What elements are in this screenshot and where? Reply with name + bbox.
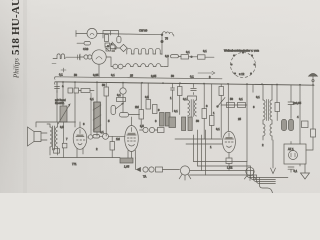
capacitor C5	[120, 88, 126, 94]
wire (bundle to corners)	[190, 162, 257, 176]
resistor R23	[219, 87, 224, 96]
ground arrow GND2	[271, 140, 276, 174]
scale lamp LA2	[84, 55, 88, 59]
svg-text:6,3: 6,3	[165, 54, 169, 58]
wire	[211, 84, 213, 139]
svg-text:0,1: 0,1	[239, 97, 243, 101]
coil L1	[163, 32, 174, 36]
AF choke R19 (hatched)	[182, 117, 186, 131]
potentiometer P1 arrow	[116, 103, 124, 109]
title: Philips 518 HU-AU (vertical)	[10, 0, 22, 79]
capacitor C15 under bus	[55, 82, 60, 93]
resistor R1	[105, 35, 109, 42]
junction dots on bus	[62, 81, 314, 86]
AF choke R20 (hatched)	[188, 117, 192, 131]
svg-text:25: 25	[130, 74, 133, 78]
valve base B2 (crow foot)	[246, 167, 254, 175]
resistor R6	[81, 89, 90, 93]
wire	[75, 82, 94, 127]
rectifier G1 (diamond)	[120, 44, 127, 51]
winding L7	[263, 124, 265, 136]
svg-text:0,1: 0,1	[203, 49, 207, 53]
capacitor C8	[171, 83, 175, 112]
tube socket top view U1	[231, 53, 256, 78]
output tube V1	[73, 128, 87, 150]
scale lamps LA3	[113, 64, 118, 69]
pilot lamp LA1	[87, 28, 97, 38]
svg-text:0,1: 0,1	[190, 75, 194, 79]
wire	[41, 133, 47, 140]
wire	[140, 129, 158, 131]
cathode resistor R26	[226, 158, 232, 164]
junction	[191, 56, 193, 58]
wire	[63, 122, 65, 158]
wire	[106, 57, 125, 67]
capacitor C9 ticks	[288, 85, 294, 119]
resistor R8	[54, 149, 60, 153]
wire (grid feed)	[90, 93, 92, 135]
hum filter R15 (hatched)	[120, 158, 133, 163]
svg-text:0,1: 0,1	[186, 50, 190, 54]
junction	[161, 34, 163, 36]
resistor R11	[117, 98, 126, 102]
wire	[100, 135, 126, 137]
terminal tick	[75, 31, 77, 37]
svg-text:0,1: 0,1	[111, 73, 115, 77]
jack circles J1	[143, 167, 148, 172]
svg-text:518 HU-AU: 518 HU-AU	[10, 0, 22, 55]
voltage selector S1 cluster	[105, 43, 110, 47]
ground arrow GND1	[301, 164, 310, 179]
wire frame of voltage selector	[103, 31, 119, 39]
wire (deep run to bottom)	[260, 178, 273, 194]
wire	[228, 153, 230, 158]
wire	[300, 85, 313, 144]
wire	[77, 42, 84, 44]
svg-text:0,1: 0,1	[90, 97, 94, 101]
capacitor C7	[120, 113, 129, 118]
arrow wire to dial	[198, 71, 215, 74]
svg-text:0,25: 0,25	[93, 73, 99, 77]
blob junction	[161, 40, 163, 42]
svg-text:1,05: 1,05	[124, 165, 130, 169]
resistor R29	[311, 129, 316, 137]
tick marks lower left	[52, 64, 66, 73]
svg-text:0,05: 0,05	[151, 74, 157, 78]
svg-text:CW 80: CW 80	[139, 29, 148, 33]
svg-text:0,1: 0,1	[216, 127, 220, 131]
rectifier tube V4	[289, 151, 298, 160]
wire	[276, 85, 278, 103]
coupling capacitor C4	[93, 135, 100, 139]
svg-text:0,1: 0,1	[256, 95, 260, 99]
IF transformer T4	[263, 100, 265, 120]
wire	[179, 55, 215, 58]
wire	[263, 84, 272, 140]
svg-text:50: 50	[102, 83, 105, 87]
wire bundle verticals	[194, 130, 206, 175]
wire	[62, 82, 64, 106]
heater resistor R2 (crenellated)	[127, 48, 162, 54]
wire	[98, 64, 100, 77]
capacitor C1 (electrolytic)	[117, 36, 121, 43]
motor M1	[92, 50, 106, 64]
wire	[306, 137, 313, 150]
tube V2 (EBL21)	[125, 126, 139, 152]
svg-text:25: 25	[238, 117, 241, 121]
trimmer C3	[74, 88, 79, 93]
resistor R14	[153, 105, 158, 114]
IF transformer T2 (hatched)	[160, 113, 165, 127]
band filter circles F1	[143, 127, 148, 132]
valve base B1 (crow foot)	[180, 166, 189, 175]
bus end hook	[54, 77, 55, 85]
capacitor C14 (pill)	[171, 55, 179, 58]
cathode resistor R7	[62, 143, 67, 148]
wire	[203, 84, 205, 139]
grid cap G	[103, 133, 109, 139]
resistor R17	[156, 167, 163, 172]
svg-text:50: 50	[171, 74, 174, 78]
antenna coil L5 (hatched)	[60, 106, 67, 122]
wire	[77, 122, 83, 157]
rectifier box (AZ1)	[284, 144, 306, 164]
wire	[228, 84, 253, 162]
wire	[221, 104, 247, 106]
fuse Si1	[84, 41, 91, 45]
svg-text:0,1: 0,1	[183, 97, 187, 101]
wire	[53, 57, 80, 58]
trimmer C2	[68, 88, 73, 93]
wire	[188, 96, 197, 100]
bus B2 (HT rail)	[55, 82, 314, 85]
wire	[36, 82, 57, 127]
svg-text:0,5: 0,5	[145, 95, 149, 99]
resistor R12	[139, 110, 144, 120]
capacitor C13 ticks	[78, 55, 80, 60]
electrolytic C10	[282, 120, 287, 131]
resistor R10	[104, 87, 109, 96]
svg-text:Sperrkr.: Sperrkr.	[55, 101, 65, 105]
resistor R22	[210, 116, 215, 126]
tube V3 (ECH21)	[223, 131, 236, 152]
svg-text:0,5: 0,5	[140, 124, 144, 128]
svg-text:TA: TA	[143, 175, 146, 179]
faint fold band at left margin	[23, 0, 27, 193]
resistor R5	[198, 55, 206, 59]
IF blob T2b (hatched)	[169, 117, 176, 128]
svg-text:0,1: 0,1	[294, 169, 298, 173]
antenna	[309, 74, 318, 77]
svg-text:50: 50	[196, 119, 199, 123]
wire	[291, 142, 300, 167]
loudspeaker LS1	[28, 127, 42, 146]
wire	[129, 115, 140, 126]
wire	[135, 158, 137, 170]
resistor R24	[227, 103, 235, 108]
resistor R25	[238, 103, 246, 108]
svg-text:771: 771	[72, 162, 77, 166]
bus B1	[55, 77, 222, 79]
svg-text:Wellenbereichschalter v. vorn: Wellenbereichschalter v. vorn	[224, 49, 260, 53]
capacitor C16 under bus	[191, 84, 197, 95]
resistor R18	[178, 87, 183, 96]
resistor R21	[202, 109, 207, 119]
wire (grid lines into V3)	[175, 139, 222, 144]
mains filter coil L2 (small crenel)	[57, 54, 65, 59]
svg-text:75: 75	[165, 37, 168, 41]
pickup chain: arrow	[137, 168, 141, 172]
resistor R28	[302, 121, 309, 128]
resistor R27	[275, 103, 280, 112]
svg-text:0,1: 0,1	[117, 93, 121, 97]
wire	[47, 122, 76, 155]
wire	[164, 58, 168, 67]
svg-text:0,1: 0,1	[174, 109, 178, 113]
svg-text:u 12: u 12	[239, 72, 245, 76]
resistor R4	[181, 55, 189, 59]
wire	[80, 54, 84, 60]
wire	[76, 34, 162, 35]
output transformer TR1	[53, 126, 55, 150]
svg-text:Philips: Philips	[13, 58, 21, 79]
capacitor C6 (electrolytic)	[111, 106, 116, 115]
grid cap terminal	[88, 135, 92, 139]
electrolytic C11	[289, 120, 294, 131]
wire (tube pins)	[128, 150, 135, 158]
heater winding L4 (loops)	[126, 64, 164, 67]
capacitor C12	[288, 167, 294, 172]
svg-text:0,1: 0,1	[59, 73, 63, 77]
HF choke L6 (hatched)	[94, 102, 100, 132]
wire (bottom return)	[50, 157, 120, 159]
resistor R13	[146, 100, 151, 110]
wire (bottom bundle corners)	[247, 162, 288, 184]
svg-text:0,5: 0,5	[60, 125, 64, 129]
IF transformer T3 windings	[188, 100, 190, 116]
svg-text:50: 50	[230, 97, 233, 101]
svg-text:0,1: 0,1	[100, 130, 104, 134]
switch S2	[218, 98, 226, 107]
resistor R16	[158, 128, 165, 133]
svg-text:CA3: CA3	[83, 47, 89, 51]
wire	[96, 82, 98, 136]
wire	[117, 47, 120, 49]
svg-text:AZ 1: AZ 1	[288, 147, 294, 151]
svg-text:50: 50	[74, 73, 77, 77]
grid resistor R9	[110, 142, 115, 151]
wire	[161, 35, 163, 55]
wire	[163, 169, 180, 171]
